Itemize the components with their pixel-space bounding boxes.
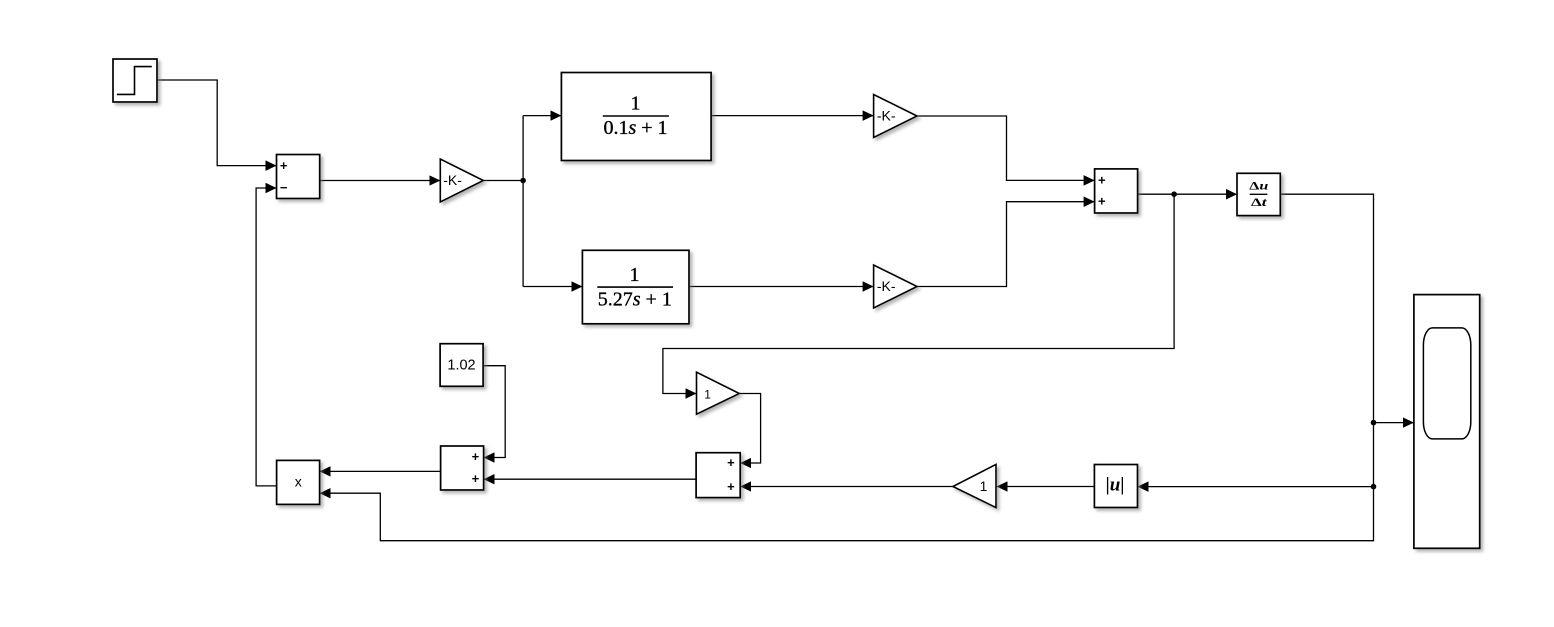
wire sum S3 to product: [320, 470, 441, 472]
sum S2: [1095, 169, 1138, 213]
sum S3: [441, 446, 484, 490]
wire gain K3 to sum S2 input 2: [917, 202, 1095, 287]
svg-text:1: 1: [630, 264, 640, 286]
gain G1 value 1: [697, 372, 740, 414]
abs block |u|: [1094, 465, 1137, 508]
wire gain G2 to sum S4 input 2: [740, 486, 953, 488]
scope: [1414, 295, 1480, 549]
step source block: [113, 59, 157, 102]
wire branch vertical: [522, 116, 524, 287]
wire sum S2 to derivative: [1138, 193, 1237, 195]
wire node to gain G1 triangle: [663, 194, 1174, 393]
gain G2 value 1 left-pointing: [953, 464, 996, 507]
wire gain K1 to branch node: [483, 180, 523, 182]
svg-text:+: +: [1098, 194, 1106, 209]
svg-text:-K-: -K-: [877, 278, 896, 294]
node scope tap dot: [1371, 420, 1377, 426]
wire product to sum S1 minus input: [256, 188, 277, 486]
transfer function TF2 1/(5.27s+1): [582, 250, 689, 323]
svg-text:|u|: |u|: [1106, 475, 1125, 496]
derivative du/dt: [1237, 173, 1280, 215]
svg-text:−: −: [280, 180, 288, 195]
svg-text:+: +: [280, 158, 288, 173]
node branch dot: [520, 178, 526, 184]
gain K3: [874, 265, 917, 308]
sum S4: [696, 453, 740, 498]
svg-text:0.1s + 1: 0.1s + 1: [603, 117, 667, 139]
svg-text:Δt: Δt: [1251, 197, 1268, 209]
svg-text:+: +: [727, 455, 735, 470]
svg-text:5.27s + 1: 5.27s + 1: [598, 288, 672, 310]
svg-text:1: 1: [704, 388, 711, 402]
svg-text:+: +: [727, 479, 735, 494]
wire sum S1 to gain K1: [320, 180, 441, 182]
sum S1: [277, 155, 320, 199]
wire step to sum S1: [157, 80, 277, 166]
node abs tap dot: [1371, 484, 1377, 490]
wire gain G1 to sum S4 input 1: [740, 394, 761, 464]
gain K1: [440, 159, 483, 202]
product block: [277, 460, 320, 504]
svg-text:x: x: [295, 474, 302, 490]
wire sum S4 to sum S3: [484, 478, 696, 480]
svg-text:-K-: -K-: [877, 107, 896, 123]
svg-text:1: 1: [980, 479, 988, 494]
svg-text:+: +: [472, 449, 480, 464]
wire node to abs block: [1138, 486, 1374, 488]
node sum S2 output dot: [1171, 191, 1177, 197]
svg-text:+: +: [472, 471, 480, 486]
wire branch to TF1: [523, 115, 561, 117]
constant 1.02: [440, 344, 483, 387]
svg-text:Δu: Δu: [1249, 180, 1269, 192]
wire constant 1.02 to sum S3: [483, 366, 505, 458]
svg-text:1: 1: [631, 92, 641, 114]
wire gain K2 to sum S2 input 1: [917, 116, 1095, 180]
wire node to scope: [1374, 422, 1414, 424]
svg-text:+: +: [1098, 172, 1106, 187]
wire TF2 to gain K3: [689, 286, 874, 288]
wire abs to gain G2 triangle: [997, 486, 1095, 488]
gain K2: [874, 95, 917, 138]
wire TF1 to gain K2: [711, 115, 874, 117]
transfer function TF1 1/(0.1s+1): [561, 73, 711, 161]
svg-text:-K-: -K-: [443, 172, 462, 188]
wire branch to TF2: [523, 286, 582, 288]
svg-text:1.02: 1.02: [447, 357, 475, 373]
wire derivative to right bus and bottom feedback to product: [320, 194, 1374, 541]
